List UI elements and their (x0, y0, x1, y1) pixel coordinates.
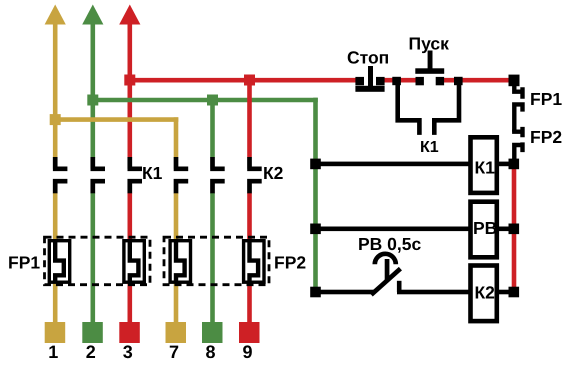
svg-text:FP1: FP1 (530, 89, 562, 109)
svg-text:РВ: РВ (473, 218, 497, 238)
wire K2 row left segment (316, 290, 374, 295)
svg-text:К1: К1 (475, 158, 496, 178)
wire K2 coil to node (497, 290, 514, 295)
start button (Пуск) NO pushbutton (415, 51, 444, 86)
terminal 7 (166, 322, 187, 343)
relay coil K2 (471, 266, 497, 322)
phase bus L1 yellow arrow (45, 5, 66, 25)
contact K1 pole on line 2 (91, 157, 106, 194)
svg-text:8: 8 (205, 342, 215, 362)
phase bus L3 red arrow (119, 5, 140, 25)
wire red horizontal feed segment 1 (L3 to stop button) (130, 78, 357, 83)
wire green horizontal feed (93, 98, 318, 103)
FP1 heater element on line 1 (49, 240, 69, 283)
wire green vertical control feed (313, 98, 318, 295)
svg-text:Стоп: Стоп (347, 48, 389, 68)
contact K1 auxiliary (parallel with start button) (392, 77, 462, 135)
node corner junction top right (509, 75, 520, 87)
wire PB coil to node (497, 227, 514, 232)
thermal relay FP2 dashed enclosure (164, 237, 269, 285)
svg-text:РВ 0,5с: РВ 0,5с (358, 234, 421, 254)
FP1 heater element on line 3 (124, 240, 144, 283)
wire K2 row right segment (397, 290, 469, 295)
node junction K2 coil/red (509, 287, 520, 298)
wire L1 vertical upper (yellow) (53, 23, 58, 158)
contact K2 pole on line 8 (210, 157, 225, 194)
wire L1 below contact (yellow) (53, 193, 58, 241)
wire red return vertical (512, 164, 517, 292)
svg-text:1: 1 (48, 342, 58, 362)
svg-text:FP1: FP1 (8, 253, 40, 273)
contact K1 pole on line 1 (53, 157, 68, 194)
relay coil PB (time relay) (471, 202, 498, 258)
contact PB timed (0.5s delay) (371, 254, 400, 295)
svg-text:FP2: FP2 (274, 253, 306, 273)
FP2 heater element on line 9 (244, 240, 264, 283)
terminal 1 (45, 322, 65, 343)
contact K1 pole on line 3 (128, 157, 143, 194)
svg-text:3: 3 (123, 342, 133, 362)
terminal 2 (82, 322, 103, 343)
stop button (Стоп) NC pushbutton (355, 66, 384, 92)
thermal relay FP1 dashed enclosure (45, 237, 151, 285)
svg-text:2: 2 (86, 342, 96, 362)
wire line 7 vertical upper (yellow) (174, 117, 179, 157)
wire L3 below FP1 box (red) (128, 281, 133, 325)
wire K1 coil row (316, 162, 469, 167)
svg-text:9: 9 (242, 342, 252, 362)
node junction PB coil/red (509, 224, 520, 235)
phase bus L2 green arrow (82, 5, 103, 25)
node junction L2/green bus (87, 95, 98, 106)
wire L7 below FP2 box (yellow) (174, 281, 179, 325)
wire L2 vertical upper (green) (91, 23, 96, 158)
contact K2 pole on line 7 (174, 157, 189, 194)
node junction green/K2 row (310, 287, 321, 298)
wire L3 below contact (red) (128, 193, 133, 241)
wire L7 below contact (yellow) (174, 193, 179, 241)
node junction L3/red bus (124, 75, 135, 86)
wire L8 below contact (green, through FP2 box) (210, 193, 215, 325)
terminal 9 (239, 322, 260, 343)
contact FP1 (NC thermal, control circuit) (512, 85, 525, 132)
svg-text:К2: К2 (263, 163, 284, 183)
svg-text:FP2: FP2 (530, 127, 562, 147)
node junction green/K1 row (310, 159, 321, 170)
wire L9 below contact (red) (247, 193, 252, 241)
node junction line 9 tee (244, 75, 255, 86)
terminal 8 (202, 322, 223, 343)
wire L2 below contact (green, through FP1 box) (91, 193, 96, 325)
wire L1 below FP1 box (yellow) (53, 281, 58, 325)
node junction line 8 tee (207, 95, 218, 106)
wire PB coil row (316, 227, 469, 232)
FP2 heater element on line 7 (170, 240, 190, 283)
svg-text:К1: К1 (142, 163, 163, 183)
wire L9 below FP2 box (red) (247, 281, 252, 325)
wire line 9 vertical upper (red) (247, 80, 252, 157)
terminal 3 (119, 322, 140, 343)
wire K1 coil to node (497, 162, 514, 167)
wire L3 vertical upper (red) (128, 23, 133, 158)
svg-text:К2: К2 (475, 283, 496, 303)
wire red horizontal feed segment 2 (stop to start button) (384, 78, 417, 83)
contact FP2 (NC thermal, control circuit) (512, 127, 525, 161)
node junction green/PB row (310, 224, 321, 235)
node junction K1 coil/red (509, 159, 520, 170)
relay coil K1 (471, 137, 497, 193)
svg-text:К1: К1 (420, 139, 439, 156)
svg-text:Пуск: Пуск (409, 34, 450, 54)
wire red horizontal feed segment 3 (start button to FP1 node) (443, 78, 515, 83)
contact K2 pole on line 9 (247, 157, 262, 194)
node junction L1/yellow bus (50, 114, 61, 125)
wire yellow horizontal feed to line 7 (53, 117, 178, 122)
wire line 8 vertical upper (green) (210, 100, 215, 157)
svg-text:7: 7 (169, 342, 179, 362)
